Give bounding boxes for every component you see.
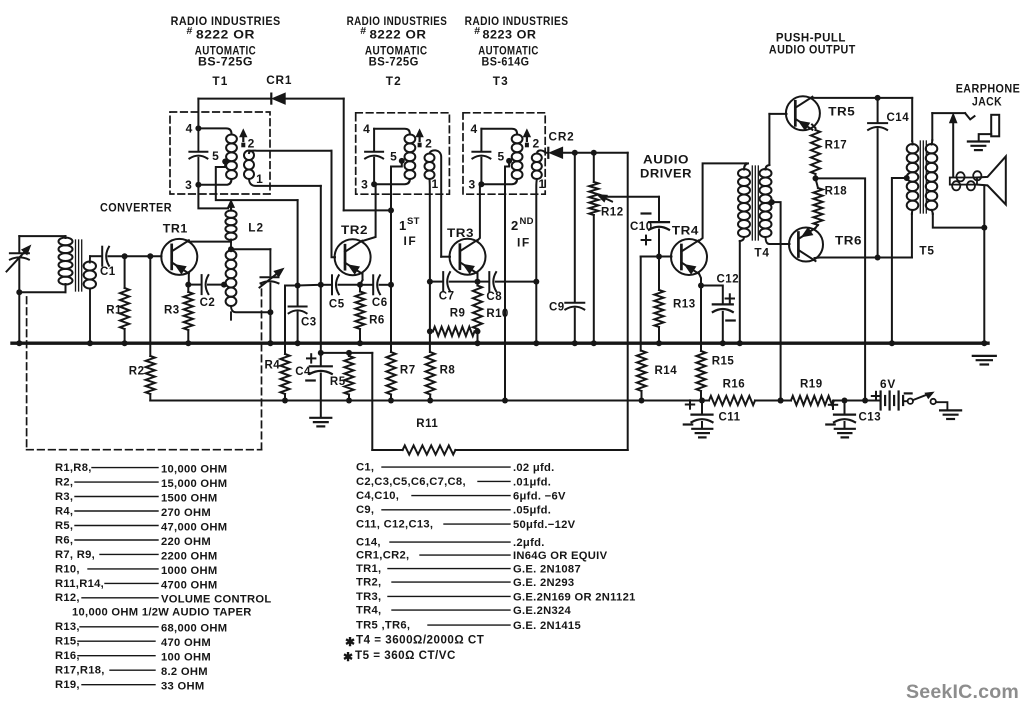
svg-text:L2: L2 (248, 221, 264, 235)
capacitor C10 electrolytic (658, 197, 660, 221)
capacitor C1 (101, 247, 103, 266)
svg-text:CR1: CR1 (266, 73, 292, 87)
svg-text:T5: T5 (919, 244, 934, 258)
capacitor C8 (478, 281, 489, 283)
svg-text:#: # (474, 25, 480, 37)
svg-text:R12,: R12, (55, 592, 80, 604)
svg-text:T5 = 360Ω CT/VC: T5 = 360Ω CT/VC (355, 649, 456, 662)
wire: wiper to C10 (604, 196, 659, 198)
wire: corner to T2 pin5 line (344, 209, 391, 211)
node: C4 top junction (318, 350, 324, 356)
svg-text:100 OHM: 100 OHM (161, 652, 211, 664)
svg-text:8222 OR: 8222 OR (196, 28, 255, 42)
capacitor C4 electrolytic (310, 365, 332, 367)
node: T4 centre tap (769, 199, 775, 205)
svg-text:TR4: TR4 (672, 224, 699, 238)
wire: T5 secondary top to jack (932, 112, 965, 114)
svg-text:.05μfd.: .05μfd. (513, 505, 551, 517)
svg-text:R7: R7 (400, 365, 416, 377)
svg-text:T4: T4 (754, 246, 769, 260)
svg-text:R17: R17 (825, 140, 848, 152)
wire: CR2 output line (563, 152, 628, 154)
svg-text:R12: R12 (601, 207, 624, 219)
svg-text:220 OHM: 220 OHM (161, 536, 211, 548)
T2 slug arrow (416, 130, 423, 137)
node: C7 left (427, 279, 433, 285)
resistor R6 (359, 285, 361, 292)
wire: TR4 collector to T4 (699, 163, 746, 240)
transformer T1 dashed can (170, 112, 270, 194)
svg-text:#: # (187, 25, 193, 37)
svg-text:IF: IF (404, 234, 418, 248)
svg-text:4: 4 (470, 122, 477, 136)
svg-text:.02 μfd.: .02 μfd. (513, 462, 555, 474)
svg-text:C11, C12,C13,: C11, C12,C13, (356, 519, 433, 531)
svg-text:TR4,: TR4, (356, 605, 381, 617)
wire: TR4 emitter (699, 274, 701, 286)
ground at earphone jack (968, 140, 989, 142)
T2 primary winding (405, 134, 416, 143)
svg-text:ST: ST (407, 216, 420, 227)
svg-text:G.E. 2N1415: G.E. 2N1415 (513, 620, 581, 632)
svg-text:EARPHONE: EARPHONE (956, 82, 1021, 96)
T3 pin4 wire and internal cap (481, 129, 517, 134)
svg-text:TR1,: TR1, (356, 563, 381, 575)
wire: T5 centre tap to bus (892, 178, 907, 343)
wire: T3 secondary top to CR2 (537, 150, 548, 153)
wire: antenna top (19, 235, 65, 237)
wire: T2 secondary bottom drop (429, 179, 431, 282)
svg-text:1000 OHM: 1000 OHM (161, 565, 218, 577)
svg-text:1: 1 (538, 177, 545, 191)
ground at switch (940, 409, 961, 411)
svg-text:8223 OR: 8223 OR (483, 28, 537, 42)
svg-text:G.E.2N324: G.E.2N324 (513, 605, 572, 617)
wire: T4 secondary top to TR5 base (769, 113, 786, 115)
T1 slug arrow (240, 130, 247, 137)
wire: C7 node down to R8 (429, 282, 431, 352)
R12 wiper arrow (603, 197, 612, 201)
node: T2 pin 5 (399, 158, 405, 164)
diode CR2 (547, 148, 549, 158)
svg-text:C14,: C14, (356, 537, 381, 549)
svg-text:JACK: JACK (972, 95, 1002, 109)
svg-text:TR5: TR5 (828, 105, 855, 119)
resistor R1 (124, 256, 126, 288)
oscillator tuning capacitor (269, 249, 271, 275)
wire: T1 pin4 to primary top (198, 128, 231, 134)
wire: T5 secondary bottom to speaker (932, 210, 933, 214)
svg-text:1: 1 (431, 177, 438, 191)
capacitor C13 electrolytic (844, 401, 846, 414)
node: tank bottom junction (267, 309, 273, 315)
oscillator coil L2 (225, 211, 236, 218)
svg-text:C11: C11 (719, 412, 741, 424)
svg-text:BS-725G: BS-725G (198, 55, 253, 69)
T3 secondary winding (532, 154, 542, 163)
potentiometer R12 (593, 153, 595, 182)
wire: TR2 emitter (362, 274, 364, 281)
resistor R19 (791, 396, 834, 405)
svg-text:R17,R18,: R17,R18, (55, 665, 105, 677)
svg-text:8222 OR: 8222 OR (370, 28, 427, 42)
antenna loopstick tuning capacitor (18, 236, 20, 251)
svg-text:4: 4 (363, 122, 370, 136)
node: TR3 emitter (475, 279, 481, 285)
capacitor C9 (574, 153, 576, 301)
svg-text:33 OHM: 33 OHM (161, 681, 204, 693)
node: T1 pin 5 (222, 159, 228, 165)
svg-text:AUDIO: AUDIO (643, 153, 689, 167)
svg-text:R13: R13 (673, 299, 696, 311)
node: R17/R18 junction (813, 175, 819, 181)
svg-text:C3: C3 (301, 317, 317, 329)
transformer T4 primary (744, 163, 749, 169)
svg-text:R18: R18 (825, 186, 848, 198)
svg-text:C8: C8 (486, 291, 502, 303)
resistor R18 (816, 178, 819, 188)
node: T1 pin 4 (195, 125, 201, 131)
svg-text:R11: R11 (416, 418, 438, 430)
svg-text:4700 OHM: 4700 OHM (161, 579, 218, 591)
transformer T4 secondary (760, 169, 772, 178)
wire: C1 to TR1 base (109, 255, 162, 257)
node: TR4 base (656, 254, 662, 260)
wire: C3 node to C5 node (298, 284, 321, 287)
T1 internal tuning capacitor (197, 128, 199, 150)
svg-text:DRIVER: DRIVER (640, 167, 692, 181)
svg-text:10,000 OHM 1/2W AUDIO TAPER: 10,000 OHM 1/2W AUDIO TAPER (72, 607, 252, 619)
svg-text:6V: 6V (880, 377, 896, 391)
wire: T1 primary bottom to pin 3 (198, 179, 231, 185)
svg-text:R14: R14 (655, 365, 678, 377)
svg-text:C10: C10 (630, 221, 653, 233)
resistor R7 (390, 285, 392, 352)
speaker cone (977, 156, 1006, 204)
wire: TR1 collector (188, 240, 190, 241)
svg-text:R13,: R13, (55, 621, 80, 633)
resistor R17 from TR5 emitter (812, 125, 816, 131)
resistor R16 (709, 396, 755, 405)
speaker voice coil (950, 178, 977, 185)
svg-text:.2μfd.: .2μfd. (513, 537, 545, 549)
svg-text:1: 1 (256, 172, 263, 186)
svg-text:C13: C13 (859, 412, 882, 424)
wire: T1 secondary bottom pin1 (249, 179, 321, 186)
wire: T1 pin1 line down through C5 node to C4 (320, 186, 322, 365)
wire: TR2 base line from T1 secondary (332, 151, 336, 257)
transistor TR5 (786, 96, 820, 130)
node: T3 pin 3 (478, 181, 484, 187)
wire: R11 left riser (371, 353, 373, 450)
svg-text:R4,: R4, (55, 505, 73, 517)
node: C6 right on T2 pin5 line (388, 282, 394, 288)
earphone jack contacts (965, 113, 974, 119)
svg-text:47,000 OHM: 47,000 OHM (161, 521, 227, 533)
svg-text:C6: C6 (372, 297, 388, 309)
ground at bus right end (973, 355, 996, 357)
wire: T4 centre tap to lower bus (772, 202, 781, 400)
svg-text:3: 3 (361, 177, 368, 191)
transistor TR1 (161, 239, 197, 275)
wire: main ground bus (12, 342, 988, 345)
svg-text:2200 OHM: 2200 OHM (161, 550, 218, 562)
resistor R10 (477, 282, 479, 286)
svg-text:TR2: TR2 (341, 223, 368, 237)
node: TR1 base / R2 (147, 253, 153, 259)
wire: tank to bus (269, 312, 271, 343)
svg-text:TR3: TR3 (447, 226, 474, 240)
transistor TR2 (335, 239, 371, 275)
wire: antenna down to bus (18, 292, 20, 343)
node: C8 right on T3 pin1 line (533, 279, 539, 285)
resistor R5 (348, 353, 350, 356)
svg-text:R6,: R6, (55, 534, 73, 546)
svg-text:.01μfd.: .01μfd. (513, 476, 551, 488)
transformer T5 primary (911, 98, 913, 141)
T2 secondary winding (425, 154, 435, 163)
svg-text:R15: R15 (712, 356, 735, 368)
wire: secondary to C1 (90, 255, 101, 257)
capacitor C11 electrolytic (701, 401, 703, 414)
svg-text:3: 3 (185, 178, 192, 192)
node: T5 primary centre tap (904, 175, 910, 181)
wire: T1 pin4 riser to CR1 line (197, 99, 199, 129)
svg-text:C1,: C1, (356, 462, 374, 474)
wire: C4 to ground (320, 374, 322, 418)
node: TR6 collector / C14 bottom (875, 255, 881, 261)
svg-text:1500 OHM: 1500 OHM (161, 492, 218, 504)
svg-text:R1,R8,: R1,R8, (55, 462, 92, 474)
resistor R8 (426, 352, 435, 395)
T1 primary winding (226, 134, 237, 143)
wire: TR6 collector line (815, 257, 912, 260)
svg-text:R2: R2 (129, 366, 145, 378)
svg-text:4: 4 (186, 122, 193, 136)
wire: T1 pin3 to L2 top (198, 185, 228, 209)
svg-text:R7, R9,: R7, R9, (55, 549, 95, 561)
svg-text:TR3,: TR3, (356, 591, 381, 603)
wire: lower B- bus right section (834, 400, 880, 402)
resistor R2 (149, 256, 151, 356)
svg-text:8.2 OHM: 8.2 OHM (161, 666, 208, 678)
svg-text:R1: R1 (106, 305, 122, 317)
svg-text:1: 1 (399, 218, 406, 233)
svg-text:R2,: R2, (55, 477, 73, 489)
wire: TR2 collector to T2 pin3 (363, 184, 376, 241)
svg-text:5: 5 (212, 149, 219, 163)
svg-text:AUDIO OUTPUT: AUDIO OUTPUT (769, 43, 856, 57)
node: speaker return (981, 225, 987, 231)
wire: T1 pin5 jog down-left (216, 162, 298, 201)
node: L2 / TR1 collector junction (230, 240, 232, 250)
node: C3 top junction (295, 283, 301, 289)
svg-text:2: 2 (425, 137, 432, 151)
transformer T5 secondary (926, 144, 938, 153)
svg-text:TR1: TR1 (163, 222, 188, 236)
node: T2 pin 3 (371, 181, 377, 187)
svg-text:R6: R6 (369, 315, 385, 327)
svg-text:CR2: CR2 (549, 130, 575, 144)
svg-text:R5: R5 (330, 376, 346, 388)
svg-text:T1: T1 (212, 74, 228, 88)
wire: C4 node to R5 and R11 corner (321, 352, 373, 354)
capacitor C12 electrolytic (701, 286, 723, 303)
node: TR2 emitter (357, 282, 363, 288)
wire: CR1 to down corner (285, 98, 344, 100)
T1 secondary winding (244, 150, 254, 160)
wire: TR3 emitter (477, 273, 479, 281)
node: antenna junction (16, 289, 22, 295)
transistor TR4 (671, 239, 707, 275)
svg-text:BS-725G: BS-725G (369, 55, 419, 69)
svg-text:R16: R16 (723, 379, 746, 391)
svg-text:C5: C5 (329, 299, 345, 311)
wire: T2 pin5 jog and drop (391, 161, 402, 285)
resistor R14 from TR4 base node (640, 257, 642, 351)
wire: T4 secondary bottom to TR6 base (766, 237, 790, 244)
wire: TR3 base (441, 256, 450, 258)
wire: speaker to bus (983, 185, 985, 343)
svg-text:TR2,: TR2, (356, 577, 381, 589)
T3 primary winding (512, 134, 523, 143)
svg-text:R16,: R16, (55, 650, 80, 662)
svg-text:IN64G OR EQUIV: IN64G OR EQUIV (513, 550, 608, 562)
wire: TR1 emitter to node (188, 273, 190, 284)
svg-text:VOLUME CONTROL: VOLUME CONTROL (161, 594, 271, 606)
wire: T1 secondary top to TR2 base line (249, 151, 332, 153)
node: R5 top (346, 350, 352, 356)
svg-text:R3: R3 (164, 305, 180, 317)
on-off switch (908, 399, 913, 404)
node: C13 top (842, 398, 848, 404)
svg-text:TR5 ,TR6,: TR5 ,TR6, (356, 620, 410, 632)
svg-text:C9,: C9, (356, 504, 374, 516)
node: T3 pin 5 (506, 158, 512, 164)
svg-text:68,000 OHM: 68,000 OHM (161, 623, 227, 635)
svg-text:5: 5 (390, 150, 397, 164)
wire: T3 pin1 to bus (535, 282, 537, 344)
node: T1 pin 3 (195, 182, 201, 188)
svg-text:10,000 OHM: 10,000 OHM (161, 464, 227, 476)
svg-text:T2: T2 (386, 74, 402, 88)
wire: R17/R18 junction to battery line (816, 178, 866, 400)
capacitor C3 (297, 286, 299, 306)
transformer T2 dashed can (356, 113, 450, 194)
wire: TR3 collector to T3 pin3 (478, 184, 480, 240)
svg-text:R10,: R10, (55, 563, 80, 575)
wire: battery to switch (903, 400, 908, 402)
svg-text:G.E.2N169 OR 2N1121: G.E.2N169 OR 2N1121 (513, 591, 636, 603)
svg-text:5: 5 (497, 150, 504, 164)
svg-text:C4: C4 (295, 366, 311, 378)
antenna coil core (75, 240, 77, 291)
svg-text:C14: C14 (887, 112, 910, 124)
svg-text:2: 2 (532, 137, 539, 151)
antenna coil L1 primary (65, 236, 67, 238)
T5 core (919, 141, 921, 213)
node: R12 top (591, 150, 597, 156)
svg-text:R11,R14,: R11,R14, (55, 578, 104, 590)
node: C9 top (572, 150, 578, 156)
wire: T3 secondary bottom drop (535, 179, 538, 282)
svg-text:SeekIC.com: SeekIC.com (906, 682, 1019, 703)
resistor R4 (280, 354, 289, 394)
T3 slug arrow (524, 130, 531, 137)
wire: T2 secondary top to TR3 base (430, 150, 442, 256)
wire: TR5 collector line (812, 97, 913, 99)
wire: antenna bottom (19, 291, 65, 293)
wire: TR4 base line (641, 256, 672, 258)
wire: top line T1 pin4 to CR1 (198, 98, 270, 100)
resistor R9 (430, 330, 433, 332)
node: R16/R19/T4 tap (778, 398, 784, 404)
svg-text:#: # (360, 25, 366, 37)
svg-text:50μfd.−12V: 50μfd.−12V (513, 519, 576, 531)
svg-text:C2: C2 (200, 297, 216, 309)
svg-text:R3,: R3, (55, 491, 73, 503)
svg-text:BS-614G: BS-614G (482, 55, 530, 69)
capacitor C5 (321, 284, 331, 286)
resistor R3 (187, 285, 189, 292)
jack plug arrow from speaker (952, 122, 954, 176)
capacitor C7 (430, 281, 443, 283)
node: R15/C11/R16 (699, 398, 705, 404)
svg-text:470 OHM: 470 OHM (161, 637, 211, 649)
oscillator tank coil (226, 250, 237, 259)
svg-text:CR1,CR2,: CR1,CR2, (356, 550, 409, 562)
svg-text:2: 2 (511, 218, 518, 233)
ground below C4 (310, 417, 331, 419)
wire: lower B- bus left section (150, 400, 709, 402)
svg-text:T4 = 3600Ω/2000Ω CT: T4 = 3600Ω/2000Ω CT (356, 634, 484, 647)
svg-text:ND: ND (520, 216, 534, 227)
transistor TR3 (450, 239, 486, 275)
node: TR5 collector / C14 (875, 95, 881, 101)
svg-text:C7: C7 (439, 291, 455, 303)
transistor TR6 (789, 228, 823, 262)
svg-text:TR6: TR6 (835, 233, 862, 247)
svg-text:R9: R9 (450, 308, 466, 320)
svg-text:IF: IF (517, 236, 531, 250)
wire: pin5 line down to C3 (297, 200, 299, 285)
node: junction on T2 pin5 line (388, 207, 394, 213)
wire: C3 node jog to R4 (285, 286, 298, 355)
capacitor C2 (188, 284, 201, 286)
resistor R11 (372, 449, 402, 451)
capacitor C14 (877, 98, 879, 122)
svg-text:R19: R19 (800, 379, 823, 391)
node: oscillator coil tap (221, 282, 227, 288)
svg-text:✱: ✱ (343, 650, 353, 664)
node: C5 left / C4 line (318, 282, 324, 288)
resistor R15 (700, 286, 702, 352)
antenna coil L1 secondary (84, 262, 96, 271)
node: R1 top (122, 253, 128, 259)
svg-text:R4: R4 (265, 360, 281, 372)
node: TR1 emitter (185, 282, 191, 288)
svg-text:C1: C1 (100, 266, 116, 278)
svg-text:15,000 OHM: 15,000 OHM (161, 478, 227, 490)
wire: T3 pin5 drop to lower bus (505, 161, 509, 401)
resistor R13 (658, 257, 660, 291)
svg-text:C9: C9 (549, 302, 565, 314)
svg-text:3: 3 (468, 177, 475, 191)
svg-text:✱: ✱ (345, 635, 355, 649)
wire: tank top (231, 248, 270, 250)
diode CR1 (270, 94, 272, 104)
svg-text:C2,C3,C5,C6,C7,C8,: C2,C3,C5,C6,C7,C8, (356, 476, 466, 488)
